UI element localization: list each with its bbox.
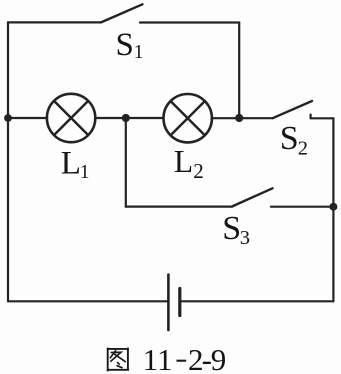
caption hanzi 图 box: [107, 348, 129, 372]
battery long plate: [167, 275, 170, 331]
node C junction dot (top drop / middle rail): [235, 114, 243, 122]
lamp L1 cross stroke 2: [54, 101, 88, 135]
lamp L2 cross stroke 1: [171, 101, 205, 135]
battery short plate: [178, 289, 181, 316]
svg-text:S3: S3: [222, 210, 250, 249]
svg-text:L2: L2: [174, 144, 204, 183]
node A junction dot (left rail / middle rail): [4, 114, 12, 122]
wire: S3 branch horizontal right segment: [271, 206, 333, 208]
wire: right vertical side: [332, 118, 334, 301]
wire: upper right vertical drop to node: [238, 23, 240, 119]
lamp L2 circle: [164, 94, 212, 142]
lamp L2 cross stroke 2: [171, 101, 205, 135]
lamp L1 cross stroke 1: [54, 101, 88, 135]
wire: middle rail from L2 to switch S2: [212, 117, 273, 119]
svg-text:S1: S1: [116, 27, 144, 63]
wire: S2 to right side corner: [311, 117, 334, 119]
caption first hyphen: [177, 360, 187, 362]
wire: middle rail from left side to lamp L1: [8, 117, 47, 119]
node B junction dot (between L1 and L2): [122, 114, 130, 122]
switch S2 fixed contact tick: [310, 115, 312, 119]
wire: left vertical side: [7, 22, 9, 301]
svg-text:L1: L1: [61, 146, 90, 183]
wire: S3 branch horizontal left segment: [126, 206, 232, 208]
switch S3 blade: [232, 188, 273, 206]
node D junction dot (S3 / right side): [329, 203, 337, 211]
wire: middle rail between L1 and L2: [95, 117, 163, 119]
caption hanzi 图 inner strokes: [110, 351, 125, 368]
svg-text:112-9: 112-9: [143, 342, 227, 374]
wire: branch vertical from node B down: [125, 118, 127, 207]
wire: top rail right segment: [140, 21, 239, 23]
wire: bottom rail left segment: [8, 300, 168, 302]
svg-text:S2: S2: [280, 120, 308, 159]
wire: bottom rail right segment: [180, 300, 334, 302]
switch S1 blade: [101, 4, 143, 22]
wire: top rail left segment: [8, 21, 101, 23]
switch S2 blade: [273, 101, 312, 118]
lamp L1 circle: [47, 94, 95, 142]
